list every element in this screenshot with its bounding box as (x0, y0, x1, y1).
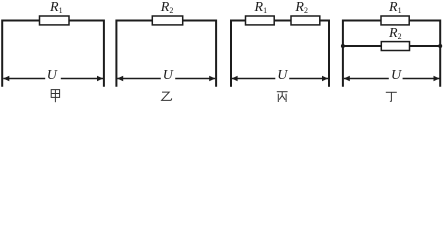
voltage arrow U (丙) (232, 76, 328, 81)
voltage arrow U (甲) (3, 76, 103, 81)
label 乙 (162, 92, 172, 100)
wire: top conductor (丁) (343, 20, 440, 22)
svg-text:U: U (163, 68, 174, 83)
svg-text:U: U (391, 68, 402, 83)
wire: middle branch conductor (丁) (343, 45, 440, 47)
wire: left vertical conductor (丙) (230, 20, 232, 87)
wire: right vertical conductor (丙) (328, 20, 330, 87)
wire: left vertical conductor (丁) (342, 20, 344, 87)
svg-text:U: U (47, 68, 58, 83)
voltage arrow U (丁) (344, 76, 440, 81)
resistor R2 (丁) (381, 42, 409, 51)
svg-text:U: U (277, 68, 288, 83)
resistor R2 (乙) (152, 16, 182, 25)
label 丁 (386, 92, 397, 101)
resistor R2 (丙) (291, 16, 320, 25)
wire: right vertical conductor (甲) (103, 20, 105, 87)
junction node (丁 right) (438, 44, 442, 48)
wire: right vertical conductor (乙) (215, 20, 217, 87)
resistor R1 (丁) (381, 16, 409, 25)
junction node (丁 left) (341, 44, 345, 48)
label 甲 (51, 90, 59, 103)
label 丙 (277, 92, 288, 102)
wire: top conductor (甲) (2, 20, 104, 22)
wire: top conductor (丙) (231, 20, 329, 22)
wire: left vertical conductor (甲) (1, 20, 3, 87)
wire: right vertical conductor (丁) (439, 20, 441, 87)
voltage arrow U (乙) (117, 76, 215, 81)
wire: top conductor (乙) (116, 20, 216, 22)
resistor R1 (甲) (40, 16, 70, 25)
resistor R1 (丙) (246, 16, 275, 25)
wire: left vertical conductor (乙) (115, 20, 117, 87)
